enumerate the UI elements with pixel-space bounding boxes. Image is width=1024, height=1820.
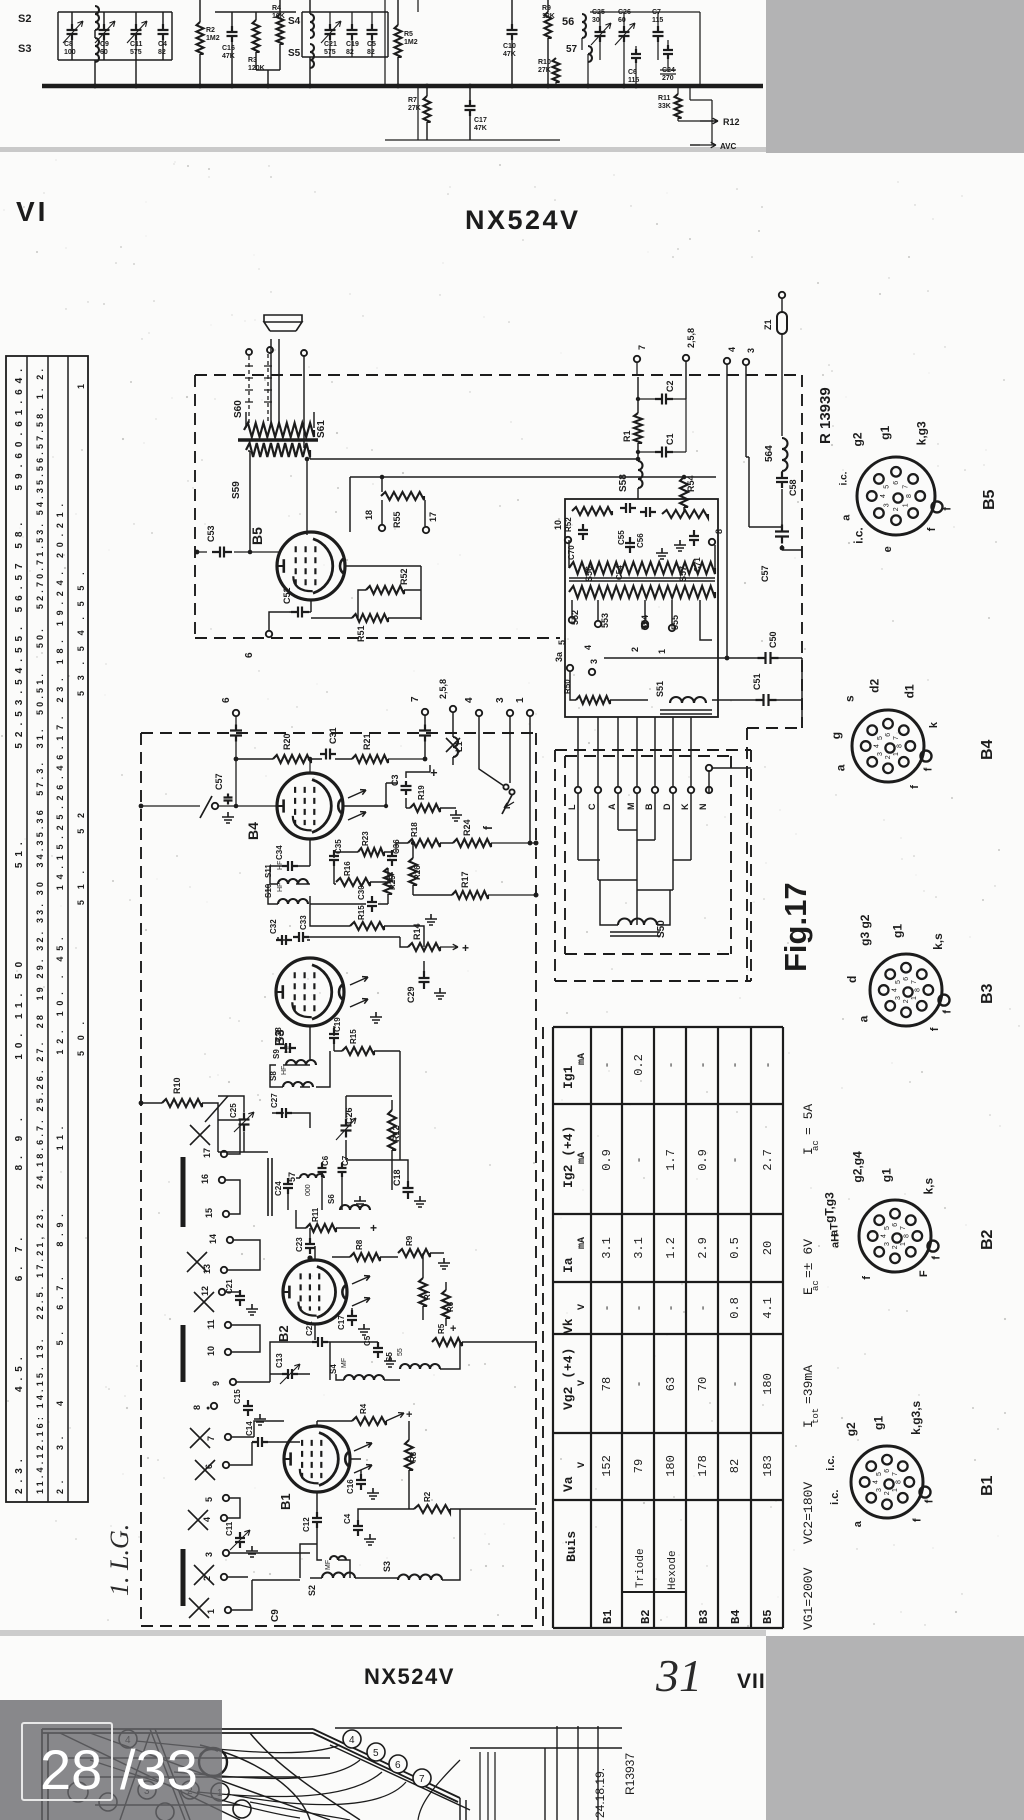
wire B3 section nets [270,1026,400,1087]
svg-text:d1: d1 [902,684,916,698]
svg-text:S60: S60 [233,400,244,418]
svg-text:R16: R16 [343,861,352,876]
svg-text:B1: B1 [979,1475,996,1496]
terminal 18 [379,525,385,531]
wire B5 grid top feed [306,459,308,535]
table B2 sub split [622,1500,686,1592]
svg-text:63: 63 [664,1377,678,1391]
svg-text:6: 6 [244,652,255,658]
coil S6 [340,1205,370,1210]
svg-text:1: 1 [902,503,909,507]
svg-text:6: 6 [893,481,900,485]
wire antenna frame [58,12,172,86]
capacitor C5b [373,1342,383,1358]
svg-text:2,5,8: 2,5,8 [686,328,696,348]
viewer overlay frame [22,1723,112,1800]
capacitor C11 575 [131,24,142,40]
capacitor C27 [276,1108,292,1118]
terminal 5 [569,617,575,623]
viewer overlay [0,1700,222,1820]
svg-text:33K: 33K [658,103,671,110]
resistor R14 [408,943,440,951]
svg-text:7: 7 [900,1226,907,1230]
svg-text:4: 4 [727,347,737,352]
resistor R11 osc [306,1224,336,1232]
svg-text:C16: C16 [222,45,235,52]
capacitor C51 [756,694,777,706]
svg-text:g2,g4: g2,g4 [851,1151,865,1183]
svg-text:R23: R23 [361,831,370,846]
svg-text:R2: R2 [423,1491,432,1502]
svg-text:2,5,8: 2,5,8 [438,679,448,699]
capacitor C11b [235,1532,245,1548]
svg-text:Vk: Vk [561,1318,576,1334]
svg-text:f: f [923,767,935,771]
svg-text:R15: R15 [349,1029,358,1044]
svg-text:3.1: 3.1 [600,1237,614,1259]
svg-text:27K: 27K [408,105,421,112]
svg-text:B3: B3 [697,1610,711,1624]
tube B1 [284,1426,350,1492]
svg-text:60: 60 [618,17,626,24]
svg-text:82: 82 [346,49,354,56]
dashed box output stage [195,374,802,376]
resistor R2b [414,1505,450,1513]
chassis numbered terminals 4 5 6 7 [343,1730,361,1748]
svg-text:1: 1 [657,649,667,654]
svg-text:S5: S5 [385,1352,394,1362]
svg-text:gT,g3: gT,g3 [822,1192,836,1223]
wire band switch wiring [578,770,709,925]
svg-text:4: 4 [464,697,475,703]
arrows at B3 [350,977,368,985]
svg-text:5: 5 [557,640,567,645]
svg-text:5: 5 [373,1748,379,1759]
svg-text:14: 14 [208,1234,218,1244]
capacitor C31 [320,749,336,760]
svg-text:/33: /33 [120,1738,198,1801]
svg-text:NX524V: NX524V [465,205,581,235]
capacitor C53 [212,547,232,558]
wire arrow AVC [690,144,700,146]
svg-text:f: f [912,1518,924,1522]
svg-text:R9: R9 [542,5,551,12]
svg-text:+: + [370,1221,377,1235]
resistor R9 12K [545,12,552,38]
svg-text:12K: 12K [542,13,555,20]
svg-text:6: 6 [204,1464,214,1469]
svg-text:f: f [926,527,938,531]
chassis inner diagonal [150,1729,190,1820]
svg-text:11: 11 [206,1319,216,1329]
svg-text:C52: C52 [282,587,292,604]
terminal 17 [423,527,429,533]
svg-text:100: 100 [64,49,76,56]
svg-text:R12: R12 [723,117,740,127]
capacitor C52 [291,607,309,618]
svg-text:i.c.: i.c. [825,1455,837,1470]
svg-text:15: 15 [204,1208,214,1218]
svg-text:1: 1 [900,1242,907,1246]
svg-text:564: 564 [764,445,775,462]
svg-text:1. L.G.: 1. L.G. [105,1524,134,1596]
svg-text:8: 8 [714,529,724,534]
resistor R21 [352,755,388,763]
terminal 4 [595,621,601,627]
svg-text:57: 57 [566,44,578,55]
capacitor C10 47K [507,24,518,40]
svg-text:k,g3,s: k,g3,s [909,1400,923,1434]
svg-text:ac: ac [811,1140,821,1151]
svg-text:0.2: 0.2 [632,1054,646,1076]
terminal 8 [709,539,715,545]
svg-text:7: 7 [893,736,900,740]
IF transformer box [565,499,718,717]
svg-text:-: - [728,1380,742,1387]
svg-text:3: 3 [877,752,884,756]
svg-text:0.8: 0.8 [728,1297,742,1319]
capacitor C25 padder [239,1113,250,1132]
svg-text:HF: HF [284,1044,291,1053]
wire B4 section nets [268,839,392,904]
svg-text:0.9: 0.9 [600,1149,614,1171]
svg-text:f: f [924,1499,936,1503]
resistor R50 [576,696,610,704]
svg-text:B5: B5 [249,527,265,545]
svg-text:82: 82 [158,49,166,56]
svg-text:6: 6 [884,1469,891,1473]
svg-text:C50: C50 [768,631,778,648]
svg-text:5: 5 [884,485,891,489]
wire B5 anode net [345,566,421,620]
svg-text:B5: B5 [761,1610,775,1624]
svg-text:7: 7 [902,485,909,489]
svg-text:C34: C34 [275,845,284,860]
svg-text:N: N [698,804,708,811]
terminal speaker c [301,350,307,356]
tube B4 [277,773,343,839]
svg-text:-: - [696,1304,710,1311]
svg-text:S59: S59 [231,481,242,499]
svg-text:82: 82 [367,49,375,56]
svg-text:R17: R17 [460,871,470,888]
switch crosses [190,1125,210,1145]
svg-text:R5: R5 [437,1323,446,1334]
svg-text:18: 18 [364,510,374,520]
svg-text:-: - [600,1304,614,1311]
svg-text:20: 20 [761,1241,775,1255]
svg-text:1: 1 [515,697,526,703]
socket B3 [870,954,942,1026]
capacitor C6 osc [318,1163,327,1177]
svg-text:R21: R21 [362,733,372,750]
resistor R23 [358,848,384,856]
transformer S59 secondary winding [246,443,310,457]
capacitor C25 30 [595,26,606,42]
wire terminal6 drop [235,716,237,806]
svg-text:178: 178 [696,1455,710,1477]
capacitor C32 [276,935,292,945]
svg-text:f: f [931,1256,943,1260]
svg-text:K: K [680,803,690,810]
svg-text:C33: C33 [299,915,308,930]
svg-text:R7: R7 [408,97,417,104]
svg-text:R2: R2 [206,27,215,34]
capacitor C12 [312,1512,322,1528]
terminal 6 output [266,631,272,637]
capacitor C26 var [341,1119,352,1138]
resistor R4 10K [277,14,284,44]
svg-text:8: 8 [896,744,903,748]
coil S10 [278,899,308,904]
svg-text:-: - [664,1304,678,1311]
dashed box fig17 outer [555,749,751,751]
svg-text:000: 000 [305,1184,312,1196]
svg-text:47K: 47K [222,53,235,60]
svg-text:1.2: 1.2 [664,1237,678,1259]
svg-text:7: 7 [637,345,647,350]
resistor R18 [408,839,440,847]
svg-text:R4: R4 [359,1403,368,1414]
terminal 3a [567,665,573,671]
svg-text:B4: B4 [245,822,261,840]
svg-text:9: 9 [211,1381,221,1386]
coil S4b [344,1375,384,1380]
terminal 3 box2 [507,710,513,716]
terminal 3 [589,669,595,675]
svg-text:1.7: 1.7 [664,1149,678,1171]
svg-text:mA: mA [577,1053,588,1065]
terminal 1 [669,625,675,631]
capacitor C2 [655,394,673,405]
svg-text:0.9: 0.9 [696,1149,710,1171]
svg-text:d2: d2 [868,678,882,692]
switch contact C57 wave [212,803,218,809]
coil S64 [782,438,788,471]
resistor R12 [388,1110,396,1150]
capacitor C23 [305,1238,315,1254]
wire switch column nets [218,1120,310,1610]
svg-text:10: 10 [206,1346,216,1356]
svg-text:-: - [664,1061,678,1068]
svg-text:S61: S61 [316,420,327,438]
chassis extra circles [68,1782,88,1802]
svg-text:R11: R11 [658,95,671,102]
svg-text:3.1: 3.1 [632,1237,646,1259]
terminal 7 top [634,356,640,362]
svg-text:6: 6 [892,1223,899,1227]
capacitor C19 [329,1028,339,1044]
svg-text:M: M [626,803,636,811]
svg-text:e: e [882,546,894,552]
svg-text:Ig1: Ig1 [561,1065,576,1089]
capacitor C58 [776,472,788,488]
svg-text:f: f [942,1010,954,1014]
band switch terminals L C A M B D K N [575,787,581,793]
svg-text:5: 5 [884,1226,891,1230]
svg-text:S3: S3 [382,1561,392,1572]
svg-text:Triode: Triode [635,1548,647,1588]
resistor R11 33K [675,94,682,118]
svg-text:C5: C5 [363,1335,372,1346]
wire IF internal [569,540,715,640]
svg-text:mA: mA [577,1152,588,1164]
terminal 1 box2 [527,710,533,716]
svg-text:115: 115 [628,77,639,84]
svg-text:47K: 47K [503,51,516,58]
svg-text:S5: S5 [288,48,301,59]
svg-text:-: - [696,1061,710,1068]
coil S50 [618,919,657,926]
coil S3b [398,1575,442,1581]
capacitor C28 [280,1043,296,1053]
svg-text:2: 2 [630,647,640,652]
svg-text:183: 183 [761,1455,775,1477]
svg-text:VII: VII [737,1670,766,1693]
resistor R55 [381,492,424,500]
switch arm osc [205,1096,228,1122]
dashed line table left [542,1027,544,1626]
svg-text:R8: R8 [355,1239,364,1250]
svg-text:47K: 47K [474,125,487,132]
svg-text:C32: C32 [269,919,278,934]
svg-text:R26: R26 [413,865,422,880]
svg-text:70: 70 [696,1377,710,1391]
tube B5 [277,532,345,600]
svg-text:C24: C24 [274,1181,283,1196]
svg-text:g1: g1 [871,1416,885,1430]
capacitor C17b [347,1310,357,1326]
svg-text:4: 4 [349,1735,355,1746]
wire B2 lower nets [270,1342,536,1380]
junction dots B4 area [528,841,533,846]
capacitor C55 [620,503,636,513]
svg-text:HF: HF [277,883,284,892]
paper noise [331,381,333,383]
capacitor C8 100 [67,24,78,40]
chassis curved wires [90,1741,495,1820]
svg-text:B4: B4 [729,1610,743,1624]
resistor R53 [572,507,612,515]
svg-text:1M2: 1M2 [206,35,220,42]
svg-text:●: ● [206,1405,210,1412]
svg-text:1: 1 [893,752,900,756]
switch f [503,784,508,789]
svg-text:D: D [662,803,672,810]
wire-number ruler box [6,356,88,1502]
chassis long horizontals [68,1758,330,1805]
svg-text:7: 7 [419,1774,425,1785]
svg-text:Buis: Buis [564,1531,579,1562]
resistor R5 1M2 [395,25,402,57]
svg-text:g3 g2: g3 g2 [858,914,872,946]
resistor R7b [419,1278,427,1306]
arrows at B1 [354,1443,372,1451]
scanner gray bottom-right [766,1636,1024,1820]
svg-text:+: + [462,941,469,955]
svg-text:C11: C11 [225,1521,234,1536]
svg-text:R15: R15 [357,905,366,920]
svg-text:R55: R55 [392,511,402,528]
capacitor C30 [367,896,377,912]
svg-text:C22: C22 [305,1321,314,1336]
svg-text:+: + [406,1409,412,1421]
svg-text:C57: C57 [214,773,224,790]
svg-text:8: 8 [914,988,921,992]
svg-text:C56: C56 [636,533,645,548]
svg-text:V: V [577,1462,588,1468]
svg-text:a: a [833,764,847,771]
svg-text:2.7: 2.7 [761,1149,775,1171]
svg-text:C29: C29 [406,986,416,1003]
svg-text:27K: 27K [538,67,551,74]
svg-text:i.c.: i.c. [838,471,849,485]
svg-text:f: f [861,1276,873,1280]
capacitor C21b [235,1290,245,1306]
svg-text:6: 6 [395,1760,401,1771]
svg-text:5: 5 [204,1497,214,1502]
transformer core [238,438,318,441]
svg-text:3: 3 [895,996,902,1000]
terminal 3 top [743,359,749,365]
capacitor C57 block [775,525,789,544]
capacitor C71 [689,530,699,546]
IF winding secondary [569,586,715,598]
resistor R17 [452,891,488,899]
svg-text:8: 8 [906,494,913,498]
capacitor C16 47K [227,26,238,42]
svg-text:C13: C13 [275,1353,284,1368]
svg-text:k,s: k,s [921,1178,935,1195]
svg-text:R19: R19 [417,785,426,800]
svg-text:mA: mA [577,1237,588,1249]
scanner gray top-right [766,0,1024,153]
resistor R3 [405,1440,413,1470]
svg-text:d: d [845,976,859,983]
wire verticals mid strip [385,0,560,140]
svg-text:R51: R51 [356,625,366,642]
capacitor C7 115 [653,26,664,42]
capacitor C10b [356,1474,366,1490]
terminal 6 box2 [233,710,239,716]
capacitor C15 [243,1400,253,1416]
svg-text:f: f [942,507,954,511]
capacitor C36 [387,850,397,866]
svg-text:55: 55 [397,1348,404,1356]
capacitor C18 [403,1181,414,1199]
svg-text:C53: C53 [206,525,216,542]
svg-text:270: 270 [662,75,674,82]
coil S1 [330,1556,346,1560]
svg-text:4: 4 [874,744,881,748]
svg-text:5: 5 [895,980,902,984]
svg-text:L1: L1 [454,741,464,752]
coil S8 [283,1082,313,1087]
svg-text:S4: S4 [288,16,301,27]
svg-text:S9: S9 [272,1049,281,1059]
svg-text:12: 12 [200,1286,210,1296]
wire top group verticals [72,12,163,86]
coil S9 osc [287,1061,289,1063]
svg-text:C25: C25 [229,1103,238,1118]
capacitor C13 [282,1369,298,1379]
capacitor C5 82 [367,24,378,40]
terminal 2,5,8 top [683,355,689,361]
chassis tube blob [199,1748,227,1776]
svg-text:C16: C16 [346,1479,355,1494]
terminal speaker a [246,349,252,355]
svg-text:g2: g2 [850,432,864,446]
